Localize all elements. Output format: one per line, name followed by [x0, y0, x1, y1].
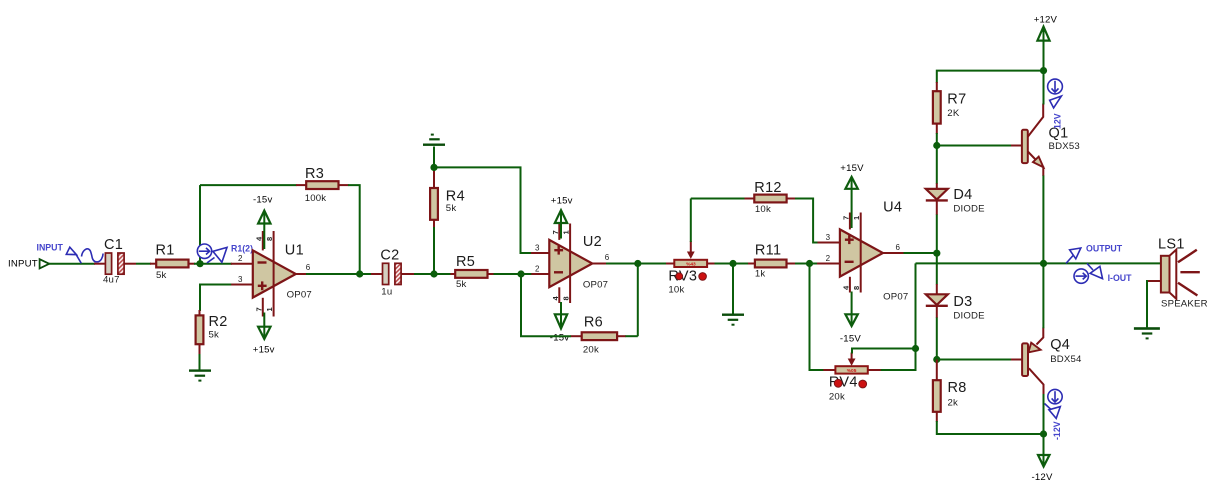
- node junction U4 output / diode rail: [933, 250, 940, 257]
- svg-text:Q4: Q4: [1050, 337, 1070, 353]
- svg-text:C1: C1: [104, 237, 123, 253]
- transistor Q1 BDX53: [1011, 104, 1080, 177]
- resistor R1 5k: [150, 242, 195, 281]
- svg-text:OP07: OP07: [883, 291, 908, 302]
- svg-text:4u7: 4u7: [103, 275, 120, 286]
- wire RV3 wiper up to R12 net: [690, 199, 692, 243]
- svg-text:-15v: -15v: [550, 333, 569, 344]
- op-amp U1 OP07: [231, 231, 312, 317]
- wire input to C1: [49, 263, 95, 265]
- current probe I-OUT (blue): [1074, 263, 1132, 283]
- svg-text:R3: R3: [305, 166, 324, 182]
- wire Q4 collector to -12V rail: [1043, 394, 1045, 434]
- svg-text:20k: 20k: [583, 344, 599, 355]
- svg-text:1u: 1u: [381, 286, 392, 297]
- wire speaker bottom to ground: [1146, 280, 1148, 327]
- wire R6 run: [625, 335, 638, 337]
- node junction output/emitters: [1040, 260, 1047, 267]
- svg-text:1k: 1k: [755, 268, 766, 279]
- power +15v top of U2: [551, 195, 573, 238]
- power +15V top of U4: [840, 163, 864, 228]
- svg-text:20k: 20k: [829, 392, 845, 403]
- svg-text:I-OUT: I-OUT: [1108, 273, 1133, 283]
- wire +12V junction to Q1 collector: [1043, 71, 1045, 105]
- svg-text:5k: 5k: [156, 270, 167, 281]
- svg-text:LS1: LS1: [1158, 236, 1185, 252]
- wire base node down to D4: [936, 146, 938, 185]
- svg-text:R11: R11: [755, 243, 781, 259]
- node output junction U1/R3: [356, 270, 363, 277]
- resistor R7 2K: [933, 82, 967, 134]
- svg-text:2: 2: [826, 254, 831, 263]
- svg-text:-12V: -12V: [1032, 472, 1053, 483]
- svg-text:10k: 10k: [755, 204, 771, 215]
- wire feedback down to RV4 left: [810, 264, 824, 371]
- wire R3 to output junction: [348, 185, 360, 274]
- power +15v bottom of U1: [253, 313, 275, 356]
- wire D3 to Q4 base node: [936, 318, 938, 360]
- wire D4 to output junction: [936, 215, 938, 254]
- wire C1 to R1: [136, 263, 151, 265]
- svg-text:D3: D3: [953, 294, 972, 310]
- node junction R11/RV4 feedback: [806, 260, 813, 267]
- power -15V bottom of U4: [840, 292, 861, 345]
- wire R8 to -12V rail: [937, 421, 1044, 434]
- svg-text:7: 7: [841, 216, 850, 220]
- wire feedback down from U2 output: [637, 264, 639, 337]
- speaker LS1: [1147, 236, 1208, 309]
- svg-text:12V: 12V: [1052, 113, 1062, 129]
- node junction RV4 wiper/sense: [912, 345, 919, 352]
- wire R12 to U4 pin3: [795, 199, 819, 243]
- svg-text:U2: U2: [583, 234, 602, 250]
- node junction RV3/R11/ground: [729, 260, 736, 267]
- svg-text:INPUT: INPUT: [8, 259, 38, 270]
- wire base node to Q1: [937, 145, 1011, 147]
- wire wiper run: [852, 349, 916, 354]
- svg-text:8: 8: [265, 237, 274, 241]
- wire R12 left run: [691, 198, 745, 200]
- resistor R11 1k: [748, 243, 796, 280]
- svg-text:BDX53: BDX53: [1049, 141, 1080, 152]
- svg-text:R1(2): R1(2): [231, 243, 253, 253]
- svg-text:7: 7: [254, 307, 263, 311]
- svg-text:DIODE: DIODE: [953, 311, 984, 322]
- svg-text:%05: %05: [847, 368, 857, 374]
- svg-text:DIODE: DIODE: [953, 203, 984, 214]
- current probe R1(2) (blue): [197, 243, 253, 263]
- wire U1 pin3 net: [200, 285, 233, 312]
- op-amp U4 OP07: [817, 200, 908, 303]
- wire U4 output to diode rail: [904, 252, 938, 254]
- svg-text:INPUT: INPUT: [37, 243, 64, 253]
- svg-text:R2: R2: [209, 314, 228, 330]
- svg-text:U1: U1: [285, 242, 304, 258]
- wire R1 to U1 pin2: [194, 263, 232, 265]
- resistor R8 2k: [933, 360, 967, 423]
- svg-text:C2: C2: [380, 247, 399, 263]
- svg-text:6: 6: [306, 263, 311, 272]
- svg-text:+15V: +15V: [840, 163, 864, 174]
- svg-text:R8: R8: [948, 380, 967, 396]
- terminal INPUT: [40, 259, 50, 268]
- svg-text:1: 1: [562, 230, 571, 234]
- svg-text:-15v: -15v: [253, 194, 272, 205]
- node junction U2 output / R6 feedback: [634, 260, 641, 267]
- svg-text:2: 2: [238, 254, 243, 263]
- potentiometer RV4 20k: [823, 353, 881, 403]
- svg-text:2k: 2k: [948, 397, 959, 408]
- svg-text:8: 8: [852, 286, 861, 290]
- node junction D3/R8/Q4 base: [933, 356, 940, 363]
- node junction C2/R4: [430, 270, 437, 277]
- diode D4: [926, 183, 985, 215]
- wire R6 to U2 pin2 junction: [521, 274, 571, 336]
- svg-text:1: 1: [265, 307, 274, 311]
- wire U2 output to RV3: [606, 263, 667, 265]
- svg-text:2: 2: [535, 264, 540, 273]
- svg-text:+12V: +12V: [1034, 14, 1058, 25]
- wire RV3 to R11: [715, 263, 749, 265]
- svg-text:5k: 5k: [446, 203, 457, 214]
- svg-text:10k: 10k: [668, 285, 684, 296]
- generator INPUT probe (blue): [37, 243, 104, 264]
- svg-text:5k: 5k: [456, 279, 467, 290]
- svg-text:3: 3: [535, 244, 540, 253]
- wire R4 vertical net: [433, 147, 435, 173]
- wire main output line: [916, 262, 1162, 264]
- svg-text:D4: D4: [953, 187, 972, 203]
- svg-text:5k: 5k: [209, 330, 220, 341]
- svg-text:7: 7: [551, 230, 560, 234]
- node junction ground/R4/U2pin3: [430, 164, 437, 171]
- wire +12V to R7: [937, 71, 1044, 83]
- wire U1 output to C2: [306, 273, 372, 275]
- current probe 12V at Q1 (blue): [1048, 79, 1063, 129]
- wire R5 to U2 pin2: [494, 273, 533, 275]
- svg-text:R5: R5: [456, 254, 475, 270]
- resistor R6 20k: [571, 314, 626, 355]
- svg-text:+15v: +15v: [253, 344, 275, 355]
- node junction R7/D4/Q1 base: [933, 142, 940, 149]
- wire C2 to R5: [414, 273, 451, 275]
- svg-text:R6: R6: [584, 314, 603, 330]
- svg-text:SPEAKER: SPEAKER: [1161, 299, 1208, 310]
- transistor Q4 BDX54: [1011, 328, 1082, 396]
- wire base node to Q4: [937, 359, 1011, 361]
- capacitor C1: [94, 237, 136, 286]
- power -12V bottom: [1032, 434, 1053, 483]
- wire R2 to ground: [199, 354, 201, 370]
- svg-text:R12: R12: [754, 180, 782, 196]
- power -15v bottom of U2: [550, 302, 569, 344]
- resistor R3 100k: [296, 166, 349, 204]
- ground above R4 (flipped): [423, 134, 445, 146]
- svg-text:RV4: RV4: [829, 375, 858, 391]
- node junction +12V rail: [1040, 67, 1047, 74]
- svg-text:6: 6: [896, 243, 901, 252]
- svg-text:%43: %43: [686, 261, 696, 267]
- capacitor C2 1u: [371, 247, 415, 297]
- svg-text:3: 3: [826, 233, 831, 242]
- wire Q1 emitter to output node: [1042, 176, 1044, 264]
- resistor R5 5k: [450, 254, 494, 290]
- svg-text:OUTPUT: OUTPUT: [1086, 244, 1123, 254]
- ground mid: [722, 314, 744, 326]
- resistor R4 5k: [430, 171, 465, 227]
- resistor R2 5k: [196, 310, 228, 355]
- svg-text:U4: U4: [883, 200, 902, 216]
- voltage probe OUTPUT (blue): [1066, 244, 1123, 264]
- wire junction up to R3: [199, 185, 201, 264]
- power +12V top: [1034, 14, 1058, 70]
- diode D3: [926, 284, 985, 322]
- svg-text:100k: 100k: [305, 193, 327, 204]
- svg-text:OP07: OP07: [583, 280, 608, 291]
- svg-text:+15v: +15v: [551, 195, 573, 206]
- wire R3 top run: [200, 184, 297, 186]
- svg-text:BDX54: BDX54: [1050, 354, 1082, 365]
- svg-text:8: 8: [562, 296, 571, 300]
- svg-text:1: 1: [852, 216, 861, 220]
- wire output junction to D3: [936, 253, 938, 284]
- node junction R1/U1/R3: [196, 260, 203, 267]
- svg-text:OP07: OP07: [287, 289, 312, 300]
- op-amp U2 OP07: [531, 224, 610, 304]
- power -15v top of U1: [253, 194, 272, 249]
- svg-text:6: 6: [605, 253, 610, 262]
- potentiometer RV3 10k: [666, 241, 715, 296]
- wire output node to Q4 emitter: [1042, 263, 1044, 328]
- node junction -12V rail: [1040, 430, 1047, 437]
- svg-text:2K: 2K: [947, 108, 960, 119]
- wire R11 to U4 pin2: [795, 263, 818, 265]
- resistor R12 10k: [745, 180, 796, 215]
- ground below R2: [189, 369, 211, 381]
- wire ground node to U2 pin3: [434, 167, 532, 253]
- svg-text:-12V: -12V: [1052, 421, 1062, 440]
- ground below speaker: [1134, 327, 1160, 339]
- svg-text:R1: R1: [156, 242, 175, 258]
- node junction R5/R6 feedback: [517, 270, 524, 277]
- wire junction down to ground: [732, 264, 734, 314]
- wire R7 to Q1 base node: [936, 133, 938, 146]
- wire RV4 right to output sense: [881, 263, 916, 370]
- current probe -12V at Q4 (blue): [1045, 389, 1063, 440]
- svg-text:3: 3: [238, 275, 243, 284]
- svg-text:R7: R7: [947, 92, 966, 108]
- svg-text:-15V: -15V: [840, 333, 861, 344]
